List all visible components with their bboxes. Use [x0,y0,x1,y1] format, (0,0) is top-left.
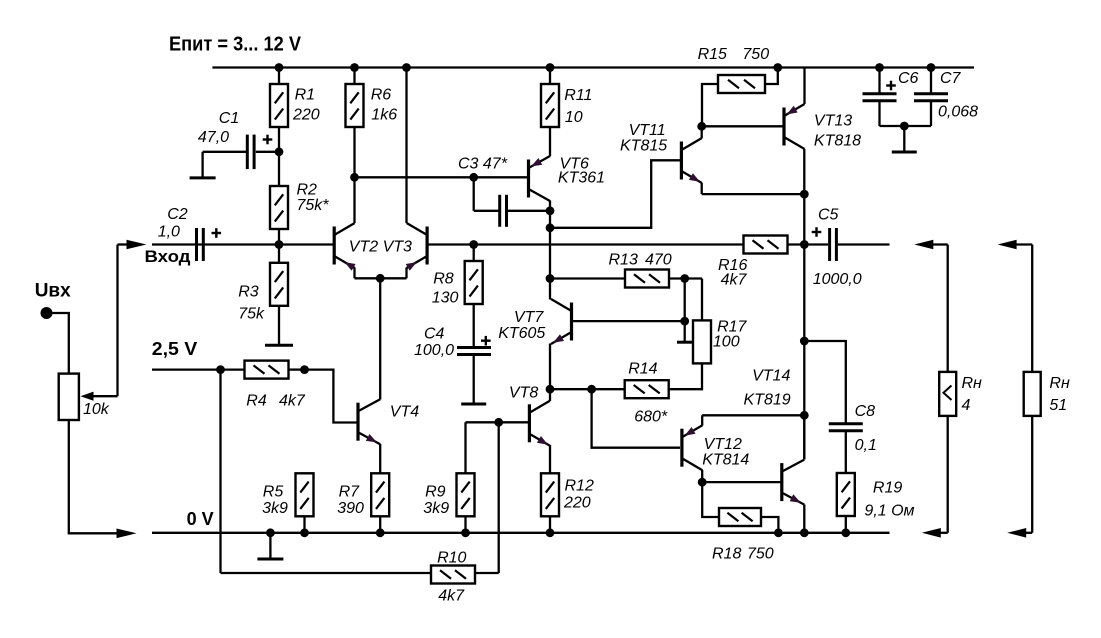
svg-text:R7: R7 [339,484,361,501]
transistor VT14 [782,460,805,505]
wire C7 top [930,68,932,95]
wire C6C7 bottom [880,101,932,126]
resistor R10 [431,566,475,584]
wire R17 col [684,279,686,322]
svg-text:C3 47*: C3 47* [458,156,508,173]
label R16 [718,257,747,289]
label C8 [855,403,877,454]
wire R10 left riser [219,370,221,573]
terminal Uвх [41,307,53,319]
transistor VT2 [334,223,355,271]
node R19-0V [841,528,850,537]
wire VT8 collector [549,389,551,401]
svg-text:VT7: VT7 [514,309,544,326]
node rail-R11 [546,63,555,72]
svg-text:VT13: VT13 [814,113,852,130]
label R11 [564,87,592,126]
wire VT12 emitter [702,415,804,425]
svg-text:R19: R19 [873,480,902,497]
label C1 [198,110,239,146]
svg-text:0 V: 0 V [187,509,214,529]
label C2 [158,206,188,241]
label C4 [414,326,454,360]
svg-text:R12: R12 [565,478,594,495]
node VT7 base/R17 col [680,317,689,326]
wire VT14 base [702,481,780,483]
svg-text:220: 220 [292,107,320,124]
wire R2 bottom [278,229,280,245]
svg-text:Rн: Rн [1049,375,1070,392]
svg-text:9,1 Ом: 9,1 Ом [864,503,914,520]
wire VT7 emitter col [549,344,551,390]
wire 2.5V line [152,368,245,370]
svg-text:680*: 680* [634,409,668,426]
node R18-0V [774,528,783,537]
node VT12C/R18/VT14 base [698,478,707,487]
ground C6C7 [892,126,917,152]
node VT13C/VT11E [800,190,809,199]
wire R17 bottom [669,363,703,389]
wire VT4 base [305,370,358,423]
svg-text:KT814: KT814 [702,452,749,469]
svg-text:C5: C5 [818,207,839,224]
transistor VT4 [358,399,380,444]
node VT11C/R15/VT13 base [697,122,706,131]
label R3 [238,284,265,323]
plus C5 [812,227,822,237]
label R18 [712,546,774,563]
label 10k [83,401,110,418]
pot wiper [81,392,118,401]
node C3 tap [469,173,478,182]
node VT2/VT3 emitters [376,274,385,283]
label R17 [713,319,748,351]
svg-text:4k7: 4k7 [438,588,465,605]
wire R7 bottom [379,516,381,533]
resistor R8 [465,261,483,304]
wire R9 riser [464,422,466,473]
wire VT7 collector col [549,279,551,300]
label 2,5 V [152,339,198,359]
wire pot bottom [69,420,117,533]
wire VT13 base [702,125,783,127]
node gnd stub [266,528,275,537]
wire VT3 collector [405,68,407,224]
label VT7 [498,309,545,342]
wire pot top [47,313,69,374]
wire C5 left [804,243,828,245]
wire VT4 collector [379,278,381,399]
svg-text:4k7: 4k7 [279,393,306,410]
svg-text:75k: 75k [238,306,265,323]
wire R8 top [473,245,475,262]
svg-text:KT819: KT819 [744,392,791,409]
node VT14E-0V [800,528,809,537]
input arrow [127,240,147,250]
wire R8-C4 [473,304,475,348]
wire C3 left [474,177,499,211]
svg-text:1000,0: 1000,0 [813,271,862,288]
svg-text:Вход: Вход [145,247,191,266]
svg-text:47,0: 47,0 [198,129,229,146]
svg-text:4k7: 4k7 [721,272,748,289]
wire mid line [474,243,744,245]
label R15 [698,46,770,63]
resistor R17 [693,320,711,363]
label C5 [813,207,862,289]
svg-text:750: 750 [747,546,774,563]
resistor R1 [270,84,288,127]
node C8 tap [800,337,809,346]
ground C4 [461,355,486,405]
wire VT14 emitter [803,505,805,533]
svg-text:0,068: 0,068 [938,104,978,121]
svg-text:KT815: KT815 [620,138,667,155]
wire R12 bottom [549,516,551,533]
wire R15 right [765,68,778,85]
svg-text:4: 4 [962,397,971,414]
svg-text:1k6: 1k6 [371,107,397,124]
ground R3 [265,306,293,345]
node VT8 base [494,418,503,427]
svg-text:100: 100 [713,334,740,351]
node rail-R6 [350,63,359,72]
resistor R9 [457,473,475,516]
wire C8 branch [804,341,846,424]
node VT12E/out [800,411,809,420]
svg-text:R13: R13 [609,252,638,269]
wire VT6C down [549,211,551,228]
label R1 [292,87,320,124]
wire VT13 emitter [803,68,805,105]
node C5/R16 [800,240,809,249]
pot bottom arrow [117,529,137,539]
label R9 [423,484,449,518]
wire C3 right [508,210,550,212]
svg-text:75k*: 75k* [297,197,330,214]
wire R3 top [278,245,280,263]
load1 wire top [947,245,949,372]
transistor VT8 [529,401,550,446]
wire VT11 base run [550,160,680,228]
wire: 0V rail [152,532,890,534]
node R13 tap [546,274,555,283]
svg-text:R10: R10 [437,550,466,567]
svg-text:220: 220 [563,495,591,512]
capacitor C2 [197,228,204,261]
stub tap bar [677,321,693,342]
wire R13 line [550,277,625,279]
wire R9 bottom [464,516,466,533]
svg-text:Rн: Rн [962,375,983,392]
capacitor C6 [863,94,897,101]
label VT13 [814,113,861,150]
svg-text:100,0: 100,0 [414,342,454,359]
node R5-0V [300,528,309,537]
wire R1 top [278,68,280,85]
load2 wire bottom [1031,416,1033,533]
wire R10 riser [498,422,500,573]
wire to VT6 base [355,176,528,178]
node VT11 base tap [546,223,555,232]
svg-text:R4: R4 [246,393,267,410]
svg-text:R3: R3 [238,284,259,301]
wire VT2 collector [353,177,355,223]
resistor R13 [625,270,669,288]
label R13 [609,252,672,269]
svg-text:C4: C4 [424,326,445,343]
wire VT8 emitter [549,445,551,473]
node R4 right [300,365,309,374]
wire C8-R19 [845,431,847,473]
label R4 [246,393,306,410]
wire R14 left [550,388,625,390]
svg-text:10k: 10k [83,401,110,418]
svg-text:KT361: KT361 [558,170,605,187]
wire R18 left [702,482,719,517]
wire VT8 base [466,421,529,423]
load2 top arrow [998,240,1033,250]
wire VT12 base run [592,389,680,448]
svg-text:R15: R15 [698,46,727,63]
svg-text:3k9: 3k9 [262,500,288,517]
svg-text:KT818: KT818 [814,133,861,150]
resistor R7 [371,473,389,516]
transistor VT6 [529,156,551,201]
svg-text:C6: C6 [898,70,919,87]
label C6 [898,70,919,87]
svg-text:C8: C8 [855,403,876,420]
label VT11 [620,122,667,155]
svg-text:R9: R9 [425,484,446,501]
node rail-C7 [927,63,936,72]
wire C6 top [878,68,880,95]
wire R19 bottom [845,516,847,533]
svg-text:Uвх: Uвх [35,281,71,302]
wire R13 right [669,277,702,279]
wire C5 right [838,243,890,245]
node R13/R17 [680,274,689,283]
wire R5 bottom [303,516,305,533]
load1 bottom arrow [922,528,948,538]
svg-text:VT12: VT12 [704,436,742,453]
label R12 [563,478,594,512]
capacitor C4 [457,348,491,355]
wire emitters join [355,268,407,279]
node VT7e/R14 [546,385,555,394]
svg-text:R1: R1 [295,87,315,104]
wire: +V power rail [212,66,974,68]
label VT8 [509,385,538,402]
node R2/R3/input [275,240,284,249]
transistor VT13 [784,104,805,149]
svg-text:2,5 V: 2,5 V [152,339,198,359]
wire R6 top [353,68,355,85]
wire R10 left [221,572,432,574]
resistor R12 [541,473,559,516]
wire VT11 emitter [702,183,805,194]
node C3/VT6C [546,206,555,215]
svg-text:10: 10 [565,109,583,126]
load resistor Rн 4 [939,372,956,416]
load1 wire bottom [947,416,949,533]
svg-text:R14: R14 [628,361,657,378]
plus C6 [886,81,896,91]
transistor VT7 [551,299,572,344]
label VT2 VT3 [349,239,412,256]
node rail-VT3 [402,63,411,72]
wire VT13 collector [803,149,805,194]
svg-text:VT8: VT8 [509,385,538,402]
potentiometer 10k [59,374,79,420]
resistor R14 [625,380,669,398]
resistor R3 [270,263,288,306]
label C7 [938,70,978,121]
svg-text:C2: C2 [167,206,188,223]
label Uвх [35,281,71,302]
node rail-R15 [773,63,782,72]
wire R10 right [475,572,499,574]
resistor R2 [270,186,288,229]
wire R4 right [289,368,305,370]
label Епит [169,34,302,56]
resistor R6 [346,84,364,127]
wire R1-R2 [278,127,280,186]
svg-text:R18: R18 [712,546,741,563]
node R4 left [216,365,225,374]
svg-text:130: 130 [432,290,459,307]
resistor R16 [744,236,788,254]
svg-text:VT11: VT11 [629,122,666,139]
wire VT4 emitter [379,444,381,473]
transistor VT11 [681,138,702,183]
resistor R4 [245,361,289,379]
svg-text:Епит = 3... 12 V: Епит = 3... 12 V [169,34,302,56]
transistor VT12 [682,425,703,470]
node R12-0V [546,528,555,537]
svg-text:0,1: 0,1 [855,437,877,454]
node R7-0V [376,528,385,537]
resistor R11 [541,84,559,127]
node VT3base/R8 [469,240,478,249]
label R2 [297,182,330,215]
wire VT3 base [429,243,474,245]
wire R6 bottom [353,127,355,177]
node C6C7 gnd [900,122,909,131]
label VT14 [744,368,791,409]
svg-text:C1: C1 [219,110,239,127]
label Rн 51 [1049,375,1070,414]
label R5 [262,484,288,518]
plus C4 [481,336,491,346]
svg-text:KT605: KT605 [498,325,545,342]
svg-text:1,0: 1,0 [158,224,180,241]
svg-text:R8: R8 [433,271,454,288]
transistor VT3 [406,223,427,271]
svg-text:R2: R2 [297,182,318,199]
resistor R15 [718,75,765,93]
capacitor C8 [829,424,863,431]
label Rн 4 [962,375,983,414]
label VT12 [702,436,749,469]
load2 wire top [1031,245,1033,372]
wire VT11 collector [701,126,703,138]
svg-text:R6: R6 [371,87,392,104]
svg-text:51: 51 [1049,397,1067,414]
wire R11-VT6e [549,127,551,156]
svg-text:VT4: VT4 [390,404,419,421]
capacitor C5 [830,228,837,261]
wire input line left [152,243,333,245]
svg-text:750: 750 [742,46,769,63]
wire VT7 base [573,320,685,322]
label R8 [432,271,459,307]
resistor R5 [296,473,314,516]
wire VT6 collector [549,201,551,211]
resistor R19 [837,473,855,516]
node R14/VT12 base tap [587,385,596,394]
svg-text:R11: R11 [564,87,592,104]
node rail-R1 [275,63,284,72]
capacitor C7 [914,94,948,101]
plus C1 [263,135,273,145]
capacitor C1 [203,135,279,170]
capacitor C3 [500,195,507,227]
wire R17 top [701,279,703,321]
label VT6 [558,156,605,187]
node C1 junction [275,147,284,156]
wire R11 top [549,68,551,85]
wire out column upper [803,194,805,244]
svg-text:390: 390 [337,500,364,517]
ground 0V [257,533,283,559]
label R19 [864,480,914,520]
node rail-C6 [875,63,884,72]
label 0 V [187,509,214,529]
wire R16 right [788,243,805,245]
label C3 [458,156,508,173]
load2 bottom arrow [1007,528,1032,538]
svg-text:470: 470 [645,252,672,269]
wire R15 left [702,84,718,126]
ground C1 [190,152,216,178]
load resistor Rн 51 [1024,372,1041,416]
wire R18 right [761,517,778,533]
wire column mid [549,228,551,279]
resistor R18 [719,508,761,526]
label R7 [337,484,364,518]
load1 top arrow [914,240,947,250]
wire wiper riser [118,245,128,397]
label R6 [371,87,397,124]
label R10 [437,550,466,605]
wire out column lower [803,415,805,459]
svg-text:R5: R5 [263,484,284,501]
svg-text:C7: C7 [940,70,962,87]
node R9-0V [461,528,470,537]
wire VT12 collector [701,470,703,482]
plus C2 [212,228,222,238]
svg-text:VT14: VT14 [752,368,790,385]
svg-text:3k9: 3k9 [423,500,449,517]
svg-text:VT2 VT3: VT2 VT3 [349,239,412,256]
node R6/VT2C/VT6 base [350,173,359,182]
label Вход [145,247,191,266]
label R14 [628,361,668,426]
wire VT14 collector [803,415,805,459]
wire out column mid [803,245,805,416]
label VT4 [390,404,419,421]
